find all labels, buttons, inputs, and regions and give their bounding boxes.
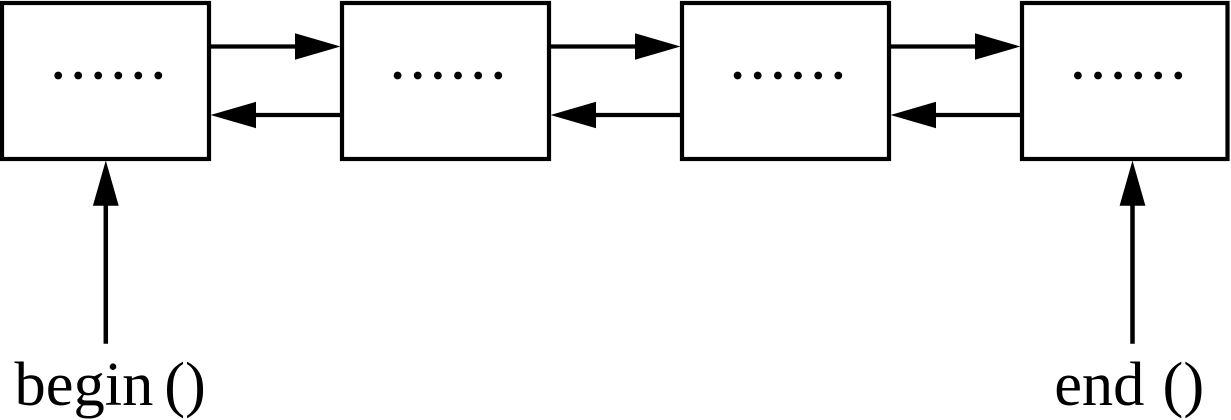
node box 1 (first list node) (2, 3, 209, 159)
node box 4 (last list node) (1022, 3, 1228, 159)
node box 2 (second list node) (342, 3, 549, 159)
node box 2 contents dots (394, 72, 502, 80)
node box 1 contents dots (54, 72, 162, 80)
node box 4 contents dots (1074, 72, 1182, 80)
backward arrow box2 to box1 (211, 102, 343, 128)
begin() pointer arrow to box 1 (93, 161, 119, 344)
forward arrow box3 to box4 (889, 33, 1021, 59)
svg-text:(): () (164, 349, 206, 419)
forward arrow box1 to box2 (209, 33, 341, 59)
svg-text:(): () (1163, 349, 1205, 419)
node box 3 (third list node) (682, 3, 889, 159)
backward arrow box3 to box2 (551, 102, 683, 128)
end() pointer arrow to box 4 (1120, 161, 1146, 344)
forward arrow box2 to box3 (549, 33, 681, 59)
node box 3 contents dots (734, 72, 843, 80)
svg-text:end: end (1054, 349, 1144, 419)
backward arrow box4 to box3 (891, 102, 1023, 128)
svg-text:begin: begin (15, 349, 154, 419)
